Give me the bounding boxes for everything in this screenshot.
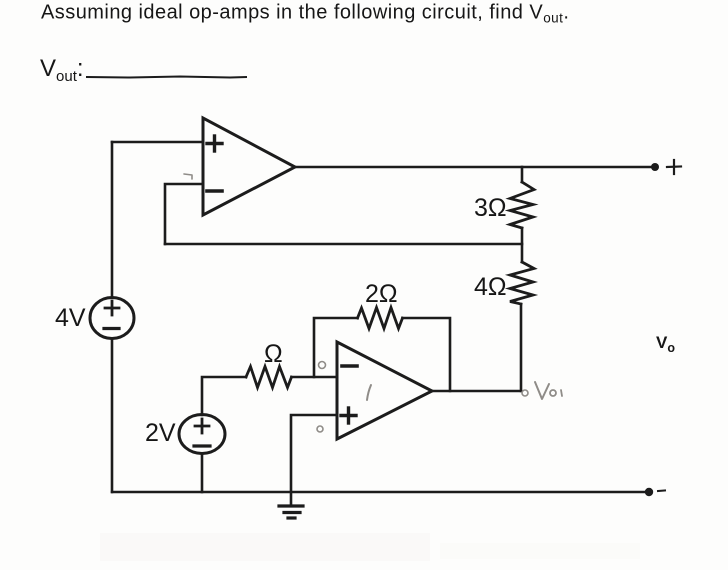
svg-text:Ω: Ω [264, 340, 283, 368]
svg-text:4V: 4V [55, 304, 86, 332]
svg-text:Assuming ideal op-amps in the: Assuming ideal op-amps in the following … [41, 2, 569, 26]
svg-text:4Ω: 4Ω [474, 273, 507, 301]
svg-text:3Ω: 3Ω [474, 194, 507, 222]
svg-text:2V: 2V [145, 419, 176, 447]
svg-text:2Ω: 2Ω [365, 280, 398, 308]
